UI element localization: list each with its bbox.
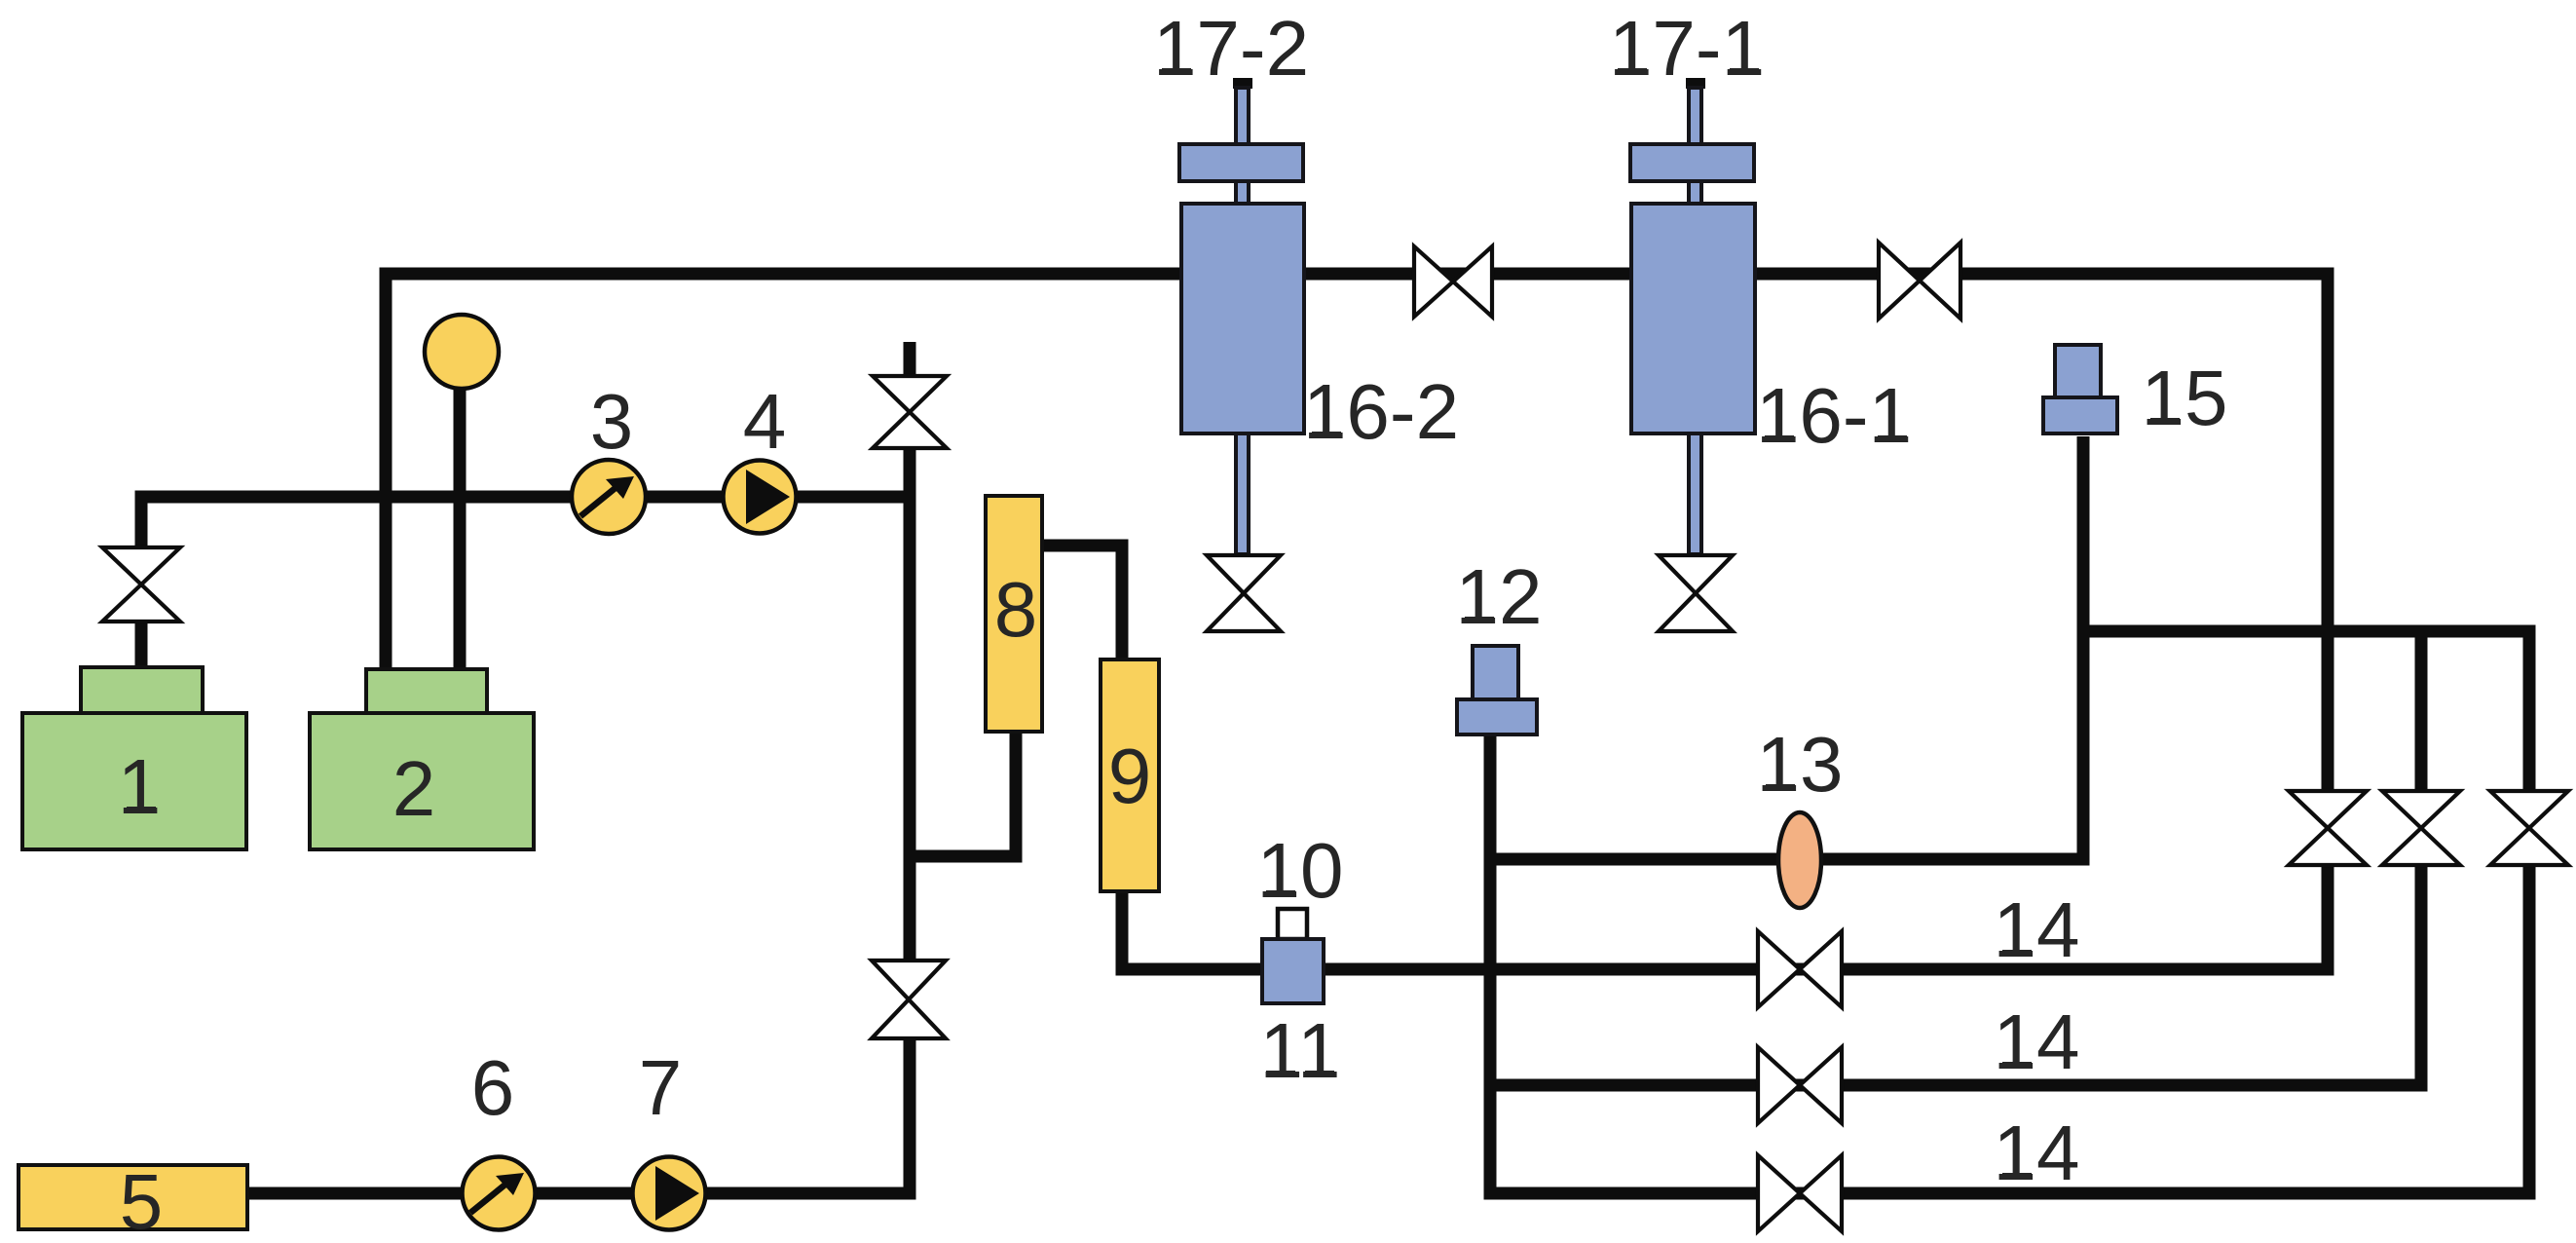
svg-text:16-2: 16-2 (1303, 368, 1459, 455)
svg-text:2: 2 (392, 745, 436, 832)
svg-text:9: 9 (1108, 733, 1152, 819)
svg-text:15: 15 (2142, 355, 2228, 441)
svg-text:1: 1 (118, 743, 162, 830)
svg-text:11: 11 (1259, 1007, 1340, 1094)
svg-text:8: 8 (994, 566, 1038, 653)
svg-text:17-1: 17-1 (1609, 5, 1765, 92)
svg-text:14: 14 (1994, 1110, 2080, 1196)
svg-text:3: 3 (590, 378, 634, 465)
svg-text:12: 12 (1456, 553, 1543, 640)
svg-text:14: 14 (1994, 886, 2080, 973)
svg-text:7: 7 (639, 1044, 683, 1131)
svg-text:13: 13 (1757, 721, 1844, 808)
svg-text:17-2: 17-2 (1153, 5, 1309, 92)
svg-text:16-1: 16-1 (1756, 372, 1912, 459)
svg-text:10: 10 (1257, 827, 1344, 914)
svg-text:4: 4 (743, 378, 787, 465)
svg-text:5: 5 (120, 1158, 164, 1243)
svg-text:14: 14 (1994, 998, 2080, 1085)
svg-text:6: 6 (471, 1044, 515, 1131)
